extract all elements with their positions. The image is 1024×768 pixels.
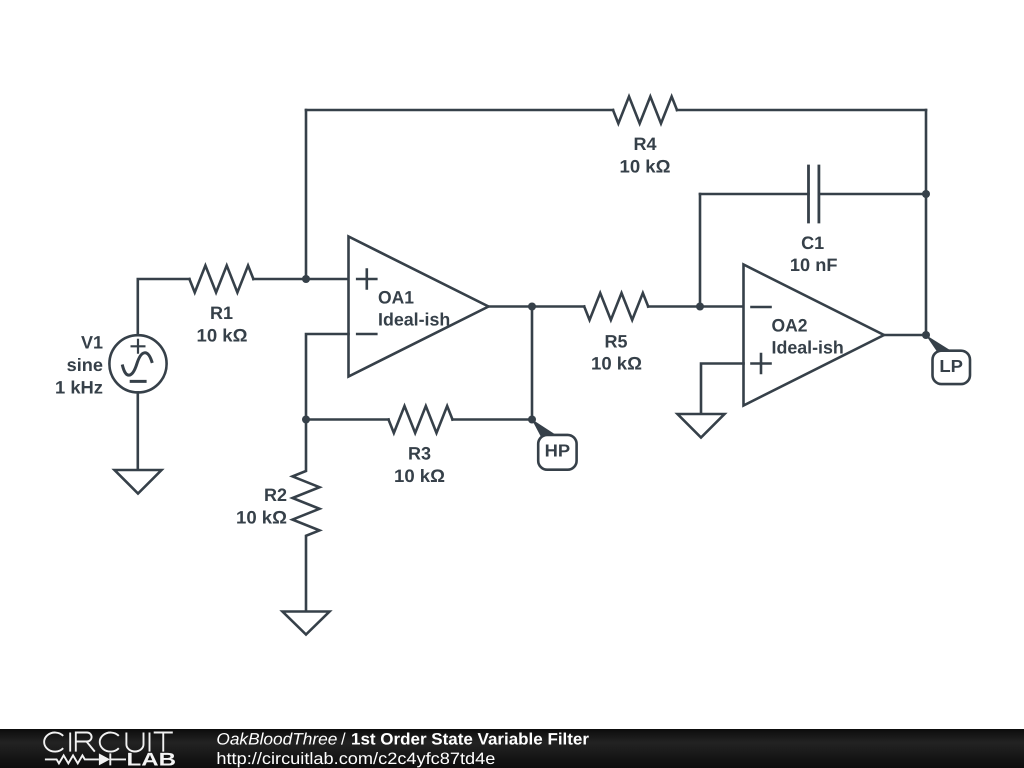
wire C1 right <box>819 193 926 196</box>
wire HP vertical <box>531 307 534 420</box>
resistor R1 <box>189 266 253 293</box>
OA2 minus symbol <box>752 306 771 309</box>
svg-text:10 kΩ: 10 kΩ <box>394 466 445 486</box>
svg-text:LP: LP <box>939 356 963 376</box>
svg-text:OA1: OA1 <box>378 288 414 308</box>
CircuitLab logo: resistor-diode glyph <box>45 753 126 765</box>
OA1 plus symbol <box>357 270 376 289</box>
ground for OA2 <box>678 414 725 438</box>
svg-text:10 nF: 10 nF <box>790 255 838 275</box>
HP flag box <box>538 435 576 470</box>
capacitor C1 <box>809 166 819 222</box>
V1 plus mark <box>132 340 145 353</box>
resistor R2 <box>293 420 320 612</box>
OA2 plus symbol <box>752 354 771 373</box>
voltage source V1 <box>109 335 166 392</box>
OA1 minus symbol <box>357 333 376 336</box>
V1 sine wave <box>123 353 152 375</box>
wire OA2 plus input to ground <box>701 364 744 415</box>
svg-text:OakBloodThree: OakBloodThree <box>216 730 337 748</box>
wire C1 left <box>700 193 809 196</box>
wire R5 left <box>532 305 584 308</box>
wire feedback vertical left <box>305 110 308 279</box>
CircuitLab logo: diode triangle <box>99 753 110 765</box>
svg-text:1 kHz: 1 kHz <box>55 377 103 397</box>
svg-text:R2: R2 <box>264 485 287 505</box>
svg-text:R4: R4 <box>633 134 656 154</box>
wire V1 to ground <box>137 392 140 470</box>
junction dots and pointers <box>302 190 951 436</box>
wire C1 loop vertical <box>699 194 702 307</box>
svg-text:Ideal-ish: Ideal-ish <box>378 310 450 330</box>
svg-text:R3: R3 <box>408 444 431 464</box>
schematic strokes <box>109 97 970 635</box>
svg-text:10 kΩ: 10 kΩ <box>197 326 248 346</box>
svg-text:/: / <box>341 730 346 748</box>
wire right vertical <box>925 110 928 335</box>
op-amp OA2 <box>744 265 885 406</box>
wire OA1 output <box>489 305 533 308</box>
HP flag pointer <box>532 419 557 436</box>
wire V1 to R1 <box>138 279 190 335</box>
ground for V1 <box>115 470 162 494</box>
wire top feedback horizontal left <box>306 109 613 112</box>
resistor R5 <box>584 293 648 320</box>
svg-text:sine: sine <box>67 355 103 375</box>
svg-text:LAB: LAB <box>127 749 177 768</box>
svg-text:V1: V1 <box>81 333 103 353</box>
svg-text:Ideal-ish: Ideal-ish <box>772 338 844 358</box>
wire top feedback horizontal right <box>677 109 926 112</box>
node R2/R3 junction <box>302 416 310 424</box>
svg-text:10 kΩ: 10 kΩ <box>620 157 671 177</box>
wire R5 to OA2 minus <box>648 305 743 308</box>
wire OA2 output <box>884 334 926 337</box>
wire R3 to HP node <box>453 418 533 421</box>
V1 minus mark <box>131 380 145 383</box>
node OA1 output junction <box>528 303 536 311</box>
wire R1 to OA1 plus input <box>253 278 348 281</box>
CircuitLab logo: CIRCUIT wordmark <box>44 733 173 752</box>
LP flag pointer <box>926 335 952 352</box>
svg-text:http://circuitlab.com/c2c4yfc8: http://circuitlab.com/c2c4yfc87td4e <box>216 750 495 768</box>
svg-text:HP: HP <box>545 441 571 461</box>
op-amp OA1 <box>349 237 489 377</box>
node C1 right junction <box>922 190 930 198</box>
svg-text:R5: R5 <box>604 332 627 352</box>
svg-text:1st Order State Variable Filte: 1st Order State Variable Filter <box>351 730 590 748</box>
ground for R2 <box>283 612 330 635</box>
svg-text:10 kΩ: 10 kΩ <box>236 507 287 527</box>
svg-text:R1: R1 <box>210 303 233 323</box>
LP flag box <box>933 351 971 384</box>
wire node to R3 <box>306 418 389 421</box>
wire OA1 minus input <box>306 334 349 420</box>
node R1/R4/OA1+ junction <box>302 275 310 283</box>
resistor R3 <box>389 406 453 433</box>
node R5/C1/OA2- junction <box>696 303 704 311</box>
node LP junction <box>922 331 930 339</box>
svg-text:C1: C1 <box>801 233 824 253</box>
svg-text:OA2: OA2 <box>772 316 808 336</box>
node HP junction <box>528 416 536 424</box>
resistor R4 <box>613 97 677 124</box>
svg-text:10 kΩ: 10 kΩ <box>591 353 642 373</box>
